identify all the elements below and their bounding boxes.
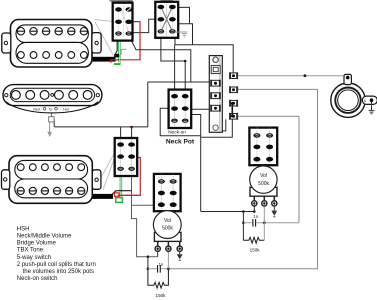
wire jumper over switch SW1 top lugs bbox=[110, 1, 133, 3]
bridge pickup slug poles bbox=[17, 164, 84, 171]
wire P1 lug1 stub bbox=[253, 206, 255, 212]
ground symbol right of SW2 bbox=[175, 31, 188, 33]
neck pickup left mounting ear bbox=[2, 33, 11, 53]
svg-text:TBX Tone: TBX Tone bbox=[17, 248, 44, 254]
svg-text:500k: 500k bbox=[162, 226, 173, 232]
wire 5-way R4 to tone loop right side bbox=[238, 116, 299, 222]
5-way lug R4 bbox=[230, 113, 238, 120]
switch SW1 neck coil-split box bbox=[113, 3, 133, 41]
svg-text:Bridge Volume: Bridge Volume bbox=[17, 241, 57, 247]
wire branch to 5-way lug R4 bbox=[201, 119, 233, 137]
single coil middle pickup body bbox=[3, 85, 102, 106]
5-way lug L3 bbox=[211, 105, 221, 112]
wire gray shield step at neck cable end bbox=[116, 49, 127, 54]
wire branch SW4 to P2 switch bottom-left lug bbox=[132, 204, 155, 206]
wire P1 lug2 down to C1 lead bbox=[263, 206, 265, 223]
single coil end screw holes bbox=[5, 94, 8, 97]
switch SW4 bridge coil-split box bbox=[115, 138, 138, 176]
junction node at C2 right bbox=[167, 267, 170, 270]
humbucker neck pickup body bbox=[11, 20, 93, 68]
5-way lug R1 bbox=[230, 72, 238, 79]
5-way lug L1 bbox=[211, 80, 221, 87]
wire 5-way R1 to output jack tip (gray) bbox=[238, 75, 344, 77]
svg-text:the volumes into 250k pots: the volumes into 250k pots bbox=[23, 269, 94, 275]
svg-text:Neck-on: Neck-on bbox=[168, 129, 186, 135]
ground at pot P1 lug3 bbox=[273, 206, 275, 211]
resistor R1 150k zigzag bbox=[243, 237, 264, 243]
svg-text:Neck-on switch: Neck-on switch bbox=[17, 276, 58, 282]
junction node at C1 left bbox=[242, 221, 245, 224]
wire middle pickup hot horizontal bbox=[54, 126, 148, 128]
junction node at P1 lug1 bbox=[253, 210, 256, 213]
pot P2 lug plate bbox=[154, 232, 181, 241]
ground at jack sleeve bbox=[369, 102, 375, 114]
humbucker bridge pickup cable bbox=[89, 194, 113, 199]
ground at pot P2 lug3 bbox=[179, 251, 181, 254]
single coil bottom skirt bbox=[6, 102, 98, 113]
wire bus to 5-way lug L1 bbox=[148, 81, 212, 83]
humbucker bridge pickup body bbox=[9, 156, 92, 204]
pot P2 lugs bbox=[155, 241, 182, 251]
pot P2 push-pull switch box bbox=[154, 174, 181, 211]
wire SW2 middle-right lug to 5-way lug R1 bbox=[172, 21, 233, 73]
svg-text:Vol: Vol bbox=[260, 173, 267, 179]
switch SW3 neck-on box bbox=[169, 90, 192, 128]
single coil terminal block bbox=[51, 114, 53, 117]
bridge pickup screw poles bbox=[17, 187, 85, 194]
wire SW2 bottom-right lug down to loop bbox=[174, 38, 176, 45]
wire C1 left lead bbox=[243, 222, 252, 224]
pot P1 lugs bbox=[252, 196, 277, 206]
single coil poles bbox=[12, 91, 93, 100]
single coil small center dot bbox=[51, 94, 54, 97]
wire 5-way R2 to long loop right side bbox=[168, 89, 317, 268]
svg-text:5-way switch: 5-way switch bbox=[17, 255, 51, 261]
neck pickup bottom bobbin bbox=[16, 42, 88, 63]
humbucker neck pickup cable bbox=[89, 57, 116, 62]
wire bridge pickup leads to SW4 (gray) bbox=[100, 153, 115, 191]
wire SW3 middle-right lug to 5-way lug L3 bbox=[191, 108, 212, 110]
wire vertical bus down to middle pickup hot bbox=[147, 82, 149, 127]
bridge cable green connector bbox=[116, 198, 123, 203]
wire middle pickup hot stub from terminal bbox=[53, 120, 55, 127]
output jack J1 top lug tab bbox=[344, 74, 351, 84]
svg-text:1n: 1n bbox=[253, 214, 258, 219]
wire C2 left lead bbox=[148, 268, 157, 270]
bridge pickup left mounting ear bbox=[2, 170, 10, 190]
wire SW2 top-right lug loop to right bbox=[176, 7, 189, 23]
neck pickup right mounting ear bbox=[92, 33, 101, 53]
bridge pickup bottom bobbin bbox=[15, 179, 88, 198]
svg-text:150k: 150k bbox=[156, 293, 167, 298]
pot P1 lug plate bbox=[250, 187, 277, 196]
ground arrow below middle pickup bbox=[49, 122, 51, 132]
wire SW4 top lugs stubs up to hot bus bbox=[121, 127, 132, 138]
junction node on jack wire bbox=[304, 74, 307, 77]
wire black from SW1 bottom-left lug to neck cable end bbox=[115, 35, 117, 54]
wire jumper over switch SW2 top lugs bbox=[160, 1, 173, 2]
svg-text:1n: 1n bbox=[159, 262, 164, 267]
svg-text:Neck/Middle Volume: Neck/Middle Volume bbox=[17, 234, 72, 240]
single coil inner plate bbox=[10, 88, 94, 101]
wire SW2 bottom-left lug branch to 5-way feed bbox=[129, 35, 191, 82]
junction node at SW3 top-right feed bbox=[184, 60, 187, 63]
svg-text:150k: 150k bbox=[250, 247, 261, 252]
wire red from SW4 middle-right lug to bridge cable bbox=[118, 158, 141, 196]
output jack tip terminal bbox=[346, 76, 350, 80]
pot P2 body bbox=[153, 211, 181, 239]
capacitor C2 plates bbox=[158, 265, 161, 273]
svg-text:2 push-pull coil splits that t: 2 push-pull coil splits that turn bbox=[17, 262, 96, 268]
wire neck pickup lead to SW1 (gray) bbox=[95, 20, 114, 22]
wire SW2 bottom-left lug to SW3 top-right lug bbox=[161, 38, 185, 94]
svg-text:Neck Pot: Neck Pot bbox=[166, 139, 195, 146]
bridge pickup top bobbin bbox=[15, 160, 88, 179]
5-way lug L2 bbox=[211, 92, 221, 99]
bridge cable red connector bbox=[114, 193, 119, 196]
junction node bridge switch / hot bus bbox=[130, 126, 133, 129]
svg-text:G: G bbox=[49, 107, 52, 112]
pot P1 body bbox=[250, 166, 277, 193]
output jack J1 body bbox=[331, 83, 365, 117]
wire SW1 bottom-right lug to SW2 middle-left lug bbox=[134, 19, 161, 32]
wire green from SW1 bottom-left lug to neck cable end bbox=[114, 35, 119, 64]
wire red overlay across bridge cable bbox=[118, 194, 137, 196]
neck pickup screw poles bbox=[17, 28, 87, 35]
resistor R2 150k zigzag bbox=[148, 269, 169, 288]
wire P2 lug1 stub down bbox=[157, 251, 159, 257]
5-way switch strip bbox=[209, 56, 222, 133]
wire R1 right lead up bbox=[263, 223, 265, 241]
wire C2 right lead bbox=[161, 268, 169, 270]
junction node at P1 lug2 bbox=[263, 221, 266, 224]
switch SW2 phase switch box bbox=[155, 2, 178, 38]
wire node down to capacitor C2 bbox=[147, 257, 149, 269]
wire gray from SW4 bottom-right lug with jog down to P2 lug1 junction bbox=[132, 170, 158, 257]
wire 5-way strip common corner to lug R4 bbox=[222, 119, 226, 131]
wire green from SW4 bottom-left lug to bridge cable bbox=[120, 170, 123, 198]
output jack J1 sleeve tab bbox=[362, 96, 377, 104]
wire black step from bridge cable tip bbox=[113, 191, 132, 194]
junction node under P2 bbox=[147, 255, 150, 258]
wire loop to SW3 top-left lug bbox=[174, 45, 176, 94]
svg-text:HSH: HSH bbox=[17, 227, 30, 233]
svg-text:500k: 500k bbox=[258, 181, 269, 187]
wire SW3 bottom-right lug to volume feed bbox=[191, 115, 201, 212]
bridge pickup right mounting ear bbox=[92, 170, 101, 190]
neck pickup slug poles bbox=[18, 52, 88, 59]
wire red from SW1 middle-right lug to neck cable end bbox=[115, 22, 141, 60]
wire C1 right lead to tone loop bbox=[256, 222, 299, 224]
junction node on P1 feed bbox=[242, 210, 245, 213]
output jack sleeve terminal bbox=[370, 98, 374, 102]
svg-text:Hot: Hot bbox=[63, 107, 68, 111]
junction node at C2 left bbox=[147, 267, 150, 270]
wire node down to capacitor C1 bbox=[242, 212, 244, 241]
wire jumper lug R3 to R4 bbox=[231, 103, 233, 116]
svg-text:Vol: Vol bbox=[164, 218, 171, 224]
legend text block bbox=[17, 227, 96, 282]
neck pickup top bobbin bbox=[16, 25, 88, 43]
capacitor C1 plates bbox=[253, 219, 256, 227]
wire SW3 middle-left lug under Neck-on label bbox=[160, 108, 201, 135]
5-way lug R3 bbox=[230, 100, 238, 107]
svg-text:Red: Red bbox=[33, 107, 39, 111]
wire neck pickup lead to cable end (gray) bbox=[95, 22, 114, 56]
5-way lug R2 bbox=[230, 86, 238, 93]
wire P2 lug2 down to C2 bbox=[167, 251, 169, 269]
wire volume feed to pot P1 lug 1 bbox=[201, 211, 255, 213]
pot P1 push-pull switch box bbox=[249, 128, 277, 166]
